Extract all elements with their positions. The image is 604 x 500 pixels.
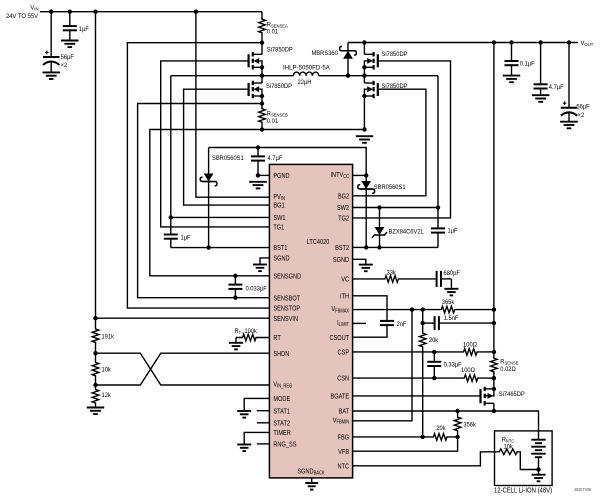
- svg-text:BST2: BST2: [335, 244, 349, 252]
- wire ITH run: [353, 296, 387, 316]
- svg-text:20k: 20k: [436, 425, 446, 433]
- wire BGATE run: [353, 395, 481, 397]
- svg-text:365k: 365k: [442, 299, 455, 307]
- wire BAT run: [353, 410, 494, 412]
- capacitor 1uF BST2: [431, 208, 445, 248]
- pin label SENSBOT: [273, 295, 300, 303]
- diode MBRS360: [340, 43, 357, 76]
- label LTC4020: [307, 238, 330, 246]
- pin label RT: [273, 334, 280, 342]
- label 2nF: [396, 321, 406, 329]
- op-amp IC LTC4020 body: [269, 164, 352, 478]
- svg-text:22µH: 22µH: [298, 79, 312, 87]
- label 10k: [101, 366, 111, 374]
- wire SENSVIN run: [96, 317, 270, 319]
- svg-text:100Ω: 100Ω: [463, 341, 477, 349]
- resistor RT 100k: [236, 334, 269, 341]
- svg-text:MBRS360: MBRS360: [311, 50, 338, 58]
- label Si7465DP: [499, 391, 525, 399]
- label 1uF BST2: [447, 227, 457, 235]
- node VOUT-365k: [492, 307, 496, 311]
- svg-text:10k: 10k: [503, 443, 513, 451]
- resistor R_SENSE 0.02: [491, 352, 498, 378]
- resistor 365k: [441, 306, 455, 313]
- label 0.1uF: [520, 60, 535, 68]
- capacitor 56uF x2 input: [43, 12, 59, 73]
- ground RT: [229, 343, 243, 350]
- svg-text:TG1: TG1: [273, 224, 284, 232]
- ground SGND left: [253, 265, 267, 272]
- pin label VFBMIN: [333, 417, 350, 426]
- wire SW1 run: [171, 75, 262, 77]
- label 12k: [101, 392, 111, 400]
- wire Q5 source to BAT: [493, 403, 495, 411]
- label 356k: [463, 421, 476, 429]
- label 20k upper: [429, 337, 439, 345]
- svg-text:RT, 100k: RT, 100k: [234, 327, 257, 335]
- label R_NTC: [502, 436, 515, 444]
- pin label SGND left: [273, 255, 289, 263]
- node M1 source-body: [260, 65, 264, 69]
- pin label SENSVIN: [273, 315, 298, 323]
- node sensgnd: [260, 127, 264, 131]
- node BAT-356k: [455, 409, 459, 413]
- label 4.7uF INTVCC: [268, 155, 283, 163]
- ground TIMER: [237, 445, 251, 452]
- wire M2 drain: [261, 76, 263, 83]
- node RSENSE bottom: [492, 376, 496, 380]
- svg-text:SENSTOP: SENSTOP: [273, 305, 300, 313]
- node BAT-Q5: [492, 409, 496, 413]
- node VOUT-1.5nF: [492, 321, 496, 325]
- wire CSN to RSENSE: [486, 377, 494, 379]
- label SBR0560S1 left: [212, 155, 244, 163]
- node div tap1: [93, 351, 97, 355]
- transistor M3 Si7850DP: [364, 52, 377, 69]
- battery 12-cell stack: [531, 440, 545, 470]
- node VOUT col: [492, 40, 496, 44]
- node BST1 diode: [206, 245, 210, 249]
- wire CSOUT run: [353, 331, 387, 338]
- inductor L1 IHLP-5050FD-5A 22uH: [293, 72, 318, 76]
- label 680pF: [443, 269, 459, 277]
- capacitor 1.5nF: [433, 316, 442, 330]
- pin label SGND_BACK: [297, 468, 325, 477]
- capacitor 680pF: [405, 271, 451, 287]
- wire STAT1 stub: [257, 410, 270, 412]
- node VOUT-M3: [362, 40, 366, 44]
- capacitor 1uF BST1: [164, 217, 178, 247]
- node div tap2: [93, 383, 97, 387]
- transistor M2 Si7850DP: [249, 81, 262, 98]
- resistor R_SENSEA: [259, 12, 266, 43]
- svg-text:1.5nF: 1.5nF: [444, 315, 459, 323]
- svg-text:1µF: 1µF: [79, 26, 89, 34]
- wire TG1 run: [161, 61, 270, 227]
- svg-text:SGND: SGND: [333, 256, 349, 264]
- ground input 56uF: [43, 72, 61, 79]
- wire FBG run: [353, 436, 423, 438]
- wire tap1 to VIN_REG: [96, 353, 270, 385]
- pin label BG2: [338, 193, 349, 201]
- resistor 12k: [92, 385, 99, 408]
- zener BZX84C6V2L: [372, 208, 387, 248]
- label 4.7uF VOUT: [549, 83, 564, 91]
- wire SGND right: [353, 259, 366, 264]
- ground input 1uF: [61, 41, 79, 48]
- svg-text:56µF: 56µF: [576, 103, 589, 111]
- node 0.033uF bottom: [233, 296, 237, 300]
- svg-text:4.7µF: 4.7µF: [268, 155, 283, 163]
- node Q5 drain: [492, 387, 496, 391]
- wire power ground link: [262, 129, 365, 131]
- pin label SW1: [273, 214, 285, 222]
- svg-text:Si7850DP: Si7850DP: [266, 83, 292, 91]
- node VIN-C56: [49, 10, 53, 14]
- node SW1: [260, 74, 264, 78]
- label 20k lower: [436, 425, 446, 433]
- svg-text:×2: ×2: [578, 112, 585, 120]
- svg-text:100Ω: 100Ω: [461, 367, 475, 375]
- label 1.5nF: [444, 315, 459, 323]
- svg-text:IHLP-5050FD-5A: IHLP-5050FD-5A: [283, 64, 330, 71]
- pin label INTVCC: [330, 171, 349, 180]
- pin label VFB: [338, 448, 349, 456]
- label x2 input: [61, 61, 68, 69]
- svg-text:4.7µF: 4.7µF: [549, 83, 564, 91]
- svg-text:NTC: NTC: [338, 463, 350, 471]
- node PGND: [256, 173, 260, 177]
- transistor M1 Si7850DP: [249, 52, 262, 69]
- transistor Q5 Si7465DP: [481, 387, 494, 406]
- wire 1.5nF left: [423, 322, 433, 324]
- label 24V TO 55V: [6, 13, 39, 20]
- wire M1 source to SW1: [261, 67, 263, 75]
- svg-text:56µF: 56µF: [61, 53, 74, 61]
- svg-text:VC: VC: [341, 276, 349, 284]
- svg-text:CSOUT: CSOUT: [329, 334, 349, 342]
- resistor 356k: [454, 411, 461, 437]
- capacitor 4.7uF VOUT: [534, 43, 548, 96]
- wire BAT to battery: [494, 411, 539, 440]
- label BZX84C6V2L: [389, 228, 425, 236]
- wire BG2 run: [353, 89, 426, 196]
- svg-text:2nF: 2nF: [396, 321, 406, 329]
- ground SGND_BACK: [305, 483, 318, 490]
- label MBRS360: [311, 50, 338, 58]
- svg-text:SW1: SW1: [273, 214, 285, 222]
- wire SW2 pin run: [353, 207, 438, 209]
- svg-text:STAT2: STAT2: [273, 420, 290, 428]
- wire SW1 to L1: [262, 75, 293, 77]
- pin label SENSGND: [273, 273, 301, 281]
- wire ILIMIT stub: [353, 322, 366, 324]
- svg-text:1µF: 1µF: [447, 227, 457, 235]
- pin label CSP: [338, 349, 350, 357]
- svg-text:0.1µF: 0.1µF: [520, 60, 535, 68]
- svg-text:SENSBOT: SENSBOT: [273, 295, 300, 303]
- pin label SGND right: [333, 256, 349, 264]
- pin label NTC: [338, 463, 350, 471]
- label 56uF input: [61, 53, 74, 61]
- ground 680pF: [444, 289, 458, 296]
- resistor 100R bottom: [434, 375, 486, 382]
- node sensbot: [260, 101, 264, 105]
- wire CSP run: [353, 351, 435, 353]
- wire RSENSE to Q5: [493, 378, 495, 389]
- wire 680pF gnd: [450, 279, 452, 289]
- transistor M4 Si7850DP: [364, 81, 377, 98]
- node BST2 diode: [364, 245, 368, 249]
- svg-text:0.01: 0.01: [267, 117, 279, 125]
- wire tap2 to SHDN: [96, 353, 270, 385]
- wire TG2 run: [353, 61, 451, 218]
- resistor R_SENSEB: [259, 107, 266, 130]
- svg-text:20k: 20k: [429, 337, 439, 345]
- node 1.5nF tee: [421, 321, 425, 325]
- node 0.033uF top: [233, 274, 237, 278]
- label 100R top: [463, 341, 477, 349]
- node senstop: [260, 41, 264, 45]
- svg-text:SBR0560S1: SBR0560S1: [212, 155, 244, 163]
- ground battery: [532, 475, 546, 482]
- svg-text:0.033µF: 0.033µF: [245, 285, 266, 293]
- pin label STAT1: [273, 408, 290, 416]
- pin label TG2: [338, 215, 349, 223]
- wire M1 drain: [261, 43, 263, 55]
- pin label VC: [341, 276, 349, 284]
- wire sensbot run: [138, 104, 270, 298]
- label 0.033uF: [245, 285, 266, 293]
- wire BST2 run: [353, 246, 438, 248]
- label M4 Si7850DP: [381, 83, 407, 91]
- svg-text:12-CELL Li-ION (48V): 12-CELL Li-ION (48V): [494, 487, 552, 495]
- label R_SENSEB value: [267, 117, 279, 125]
- node VIN-divider: [93, 10, 97, 14]
- wire TIMER: [244, 432, 269, 444]
- wire L1 to SW2: [319, 75, 438, 77]
- wire VIN rail: [40, 11, 262, 13]
- wire M4 source to ground: [363, 96, 365, 130]
- label R_NTC value: [503, 443, 513, 451]
- node zener top: [377, 205, 381, 209]
- wire CSN run: [353, 377, 435, 379]
- pin label RNG_SS: [273, 441, 297, 449]
- wire VFBMIN link: [353, 310, 412, 421]
- svg-text:RNG_SS: RNG_SS: [273, 441, 297, 449]
- label figure tag: [574, 487, 591, 492]
- pin label BST2: [335, 244, 349, 252]
- resistor 20k upper: [419, 328, 426, 353]
- pin label MODE: [273, 395, 290, 403]
- resistor 191k: [92, 318, 99, 353]
- svg-text:680pF: 680pF: [443, 269, 459, 277]
- pin label PGND: [273, 172, 289, 180]
- ground 4.7uF VOUT: [532, 95, 550, 102]
- wire PGND run: [258, 174, 269, 176]
- pin label CSOUT: [329, 334, 349, 342]
- svg-text:0.02Ω: 0.02Ω: [500, 366, 516, 374]
- node MBRS anode: [346, 74, 350, 78]
- capacitor 0.033uF: [228, 276, 242, 298]
- svg-text:BST1: BST1: [273, 245, 287, 253]
- wire VOUT rail: [364, 42, 578, 44]
- label M1 Si7850DP: [267, 46, 293, 54]
- node VFBMAX-VFBMIN: [410, 307, 414, 311]
- svg-text:0.01: 0.01: [267, 28, 279, 36]
- node power ground: [362, 127, 366, 131]
- wire SGND_BACK: [311, 478, 313, 483]
- pin label FBG: [338, 434, 350, 442]
- svg-text:SBR0560S1: SBR0560S1: [374, 183, 406, 191]
- capacitor 4.7uF INTVCC: [251, 148, 265, 176]
- label VOUT: [581, 40, 594, 47]
- pin label TIMER: [273, 429, 291, 437]
- node VFB node: [455, 435, 459, 439]
- svg-text:0.33µF: 0.33µF: [444, 361, 462, 369]
- label VIN: [30, 4, 38, 11]
- resistor 20k lower: [423, 434, 458, 441]
- node VFBMAX-20k: [421, 307, 425, 311]
- svg-text:BGATE: BGATE: [331, 393, 350, 401]
- svg-text:24V TO 55V: 24V TO 55V: [6, 13, 39, 20]
- node M3 source-body: [362, 65, 366, 69]
- wire 1.5nF right: [441, 322, 494, 324]
- node CSP filter: [432, 350, 436, 354]
- node SW2: [362, 74, 366, 78]
- wire SW2 column: [437, 76, 439, 208]
- label 56uF VOUT: [576, 103, 589, 111]
- node FBG-20k: [421, 435, 425, 439]
- svg-text:VFB: VFB: [338, 448, 349, 456]
- label 365k: [442, 299, 455, 307]
- label L1 part: [283, 64, 330, 71]
- label R_SENSEB: [267, 110, 288, 118]
- svg-text:ITH: ITH: [340, 293, 349, 301]
- node 4.7uF top: [256, 145, 260, 149]
- wire M2 source to RSENSEB: [261, 96, 263, 107]
- node VOUT 56uF: [567, 40, 571, 44]
- label 1uF input: [79, 26, 89, 34]
- node RSENSE top: [492, 350, 496, 354]
- wire VIN sense rail: [95, 12, 97, 319]
- node M4 source-body: [362, 94, 366, 98]
- pin label BG1: [273, 202, 284, 210]
- pin label BAT: [339, 408, 350, 416]
- wire MODE: [244, 398, 269, 411]
- pin label BST1: [273, 245, 287, 253]
- ground MODE: [237, 411, 251, 418]
- wire BST1 run: [171, 247, 270, 249]
- wire VFB run: [353, 437, 458, 451]
- node INTVCC tee: [364, 173, 368, 177]
- svg-text:33k: 33k: [387, 269, 397, 277]
- svg-text:356k: 356k: [463, 421, 476, 429]
- node zener bottom: [377, 245, 381, 249]
- ground 56uF VOUT: [560, 122, 578, 129]
- pin label BGATE: [331, 393, 350, 401]
- svg-text:BZX84C6V2L: BZX84C6V2L: [389, 228, 425, 236]
- label R_SENSEA: [267, 21, 289, 29]
- wire NTC run: [353, 452, 498, 466]
- wire M3 source to SW2: [363, 67, 365, 75]
- ground 0.1uF: [503, 76, 520, 83]
- pin label VFBMAX: [331, 306, 349, 315]
- node VIN-C1u: [68, 10, 72, 14]
- svg-text:STAT1: STAT1: [273, 408, 290, 416]
- svg-text:BG2: BG2: [338, 193, 349, 201]
- wire INTVCC run: [209, 148, 367, 176]
- label 1uF BST1: [180, 234, 190, 242]
- svg-text:RT: RT: [273, 334, 280, 342]
- label 0.33uF: [444, 361, 462, 369]
- node VOUT 0.1uF: [509, 40, 513, 44]
- svg-text:SGND: SGND: [273, 255, 289, 263]
- label 12-CELL Li-ION (48V): [494, 487, 552, 495]
- label 33k: [387, 269, 397, 277]
- svg-text:FBG: FBG: [338, 434, 350, 442]
- svg-text:PGND: PGND: [273, 172, 289, 180]
- svg-text:Si7465DP: Si7465DP: [499, 391, 525, 399]
- capacitor 0.1uF VOUT: [505, 43, 519, 76]
- capacitor 2nF: [380, 316, 394, 331]
- pin label SHDN: [273, 350, 289, 358]
- svg-text:TIMER: TIMER: [273, 429, 291, 437]
- svg-text:1µF: 1µF: [180, 234, 190, 242]
- pin label PVIN: [273, 193, 285, 202]
- label 100R bottom: [461, 367, 475, 375]
- pin label CSN: [337, 375, 349, 383]
- capacitor 0.33uF: [427, 352, 441, 378]
- label M3 Si7850DP: [381, 51, 407, 59]
- pin label STAT2: [273, 420, 290, 428]
- node VOUT 4.7uF: [538, 40, 542, 44]
- label 191k: [101, 333, 114, 341]
- svg-text:VIN: VIN: [30, 4, 38, 11]
- wire SW1 column: [171, 76, 270, 218]
- wire R_NTC to batt neg: [519, 452, 538, 470]
- ground PGND: [249, 182, 267, 189]
- wire 365k to VOUT col: [455, 309, 494, 311]
- pin label ILIMIT: [337, 319, 349, 328]
- ground power stage: [356, 136, 373, 143]
- wire MBRS cathode corner: [348, 42, 364, 44]
- node battery neg: [536, 467, 540, 471]
- svg-text:BG1: BG1: [273, 202, 284, 210]
- wire RT gnd: [235, 338, 237, 343]
- label R_SENSE: [500, 358, 518, 366]
- wire 20k col bottom: [422, 353, 424, 437]
- pin label ITH: [340, 293, 349, 301]
- pin label SENSTOP: [273, 305, 300, 313]
- svg-text:SENSVIN: SENSVIN: [273, 315, 298, 323]
- svg-text:CSN: CSN: [337, 375, 349, 383]
- wire sensgnd run: [150, 130, 270, 276]
- svg-text:SENSGND: SENSGND: [273, 273, 301, 281]
- node battery box: [495, 431, 553, 486]
- svg-text:SHDN: SHDN: [273, 350, 289, 358]
- wire senstop run: [127, 43, 269, 308]
- resistor 10k: [92, 353, 99, 385]
- capacitor 1uF input: [63, 12, 77, 41]
- node SW2 pin tee: [436, 205, 440, 209]
- label R_SENSE value: [500, 366, 516, 374]
- wire RNG_SS stub: [257, 443, 270, 445]
- svg-text:MODE: MODE: [273, 395, 290, 403]
- wire M3 drain: [363, 43, 365, 55]
- svg-text:×2: ×2: [61, 61, 68, 69]
- pin label VIN_REG: [273, 381, 292, 390]
